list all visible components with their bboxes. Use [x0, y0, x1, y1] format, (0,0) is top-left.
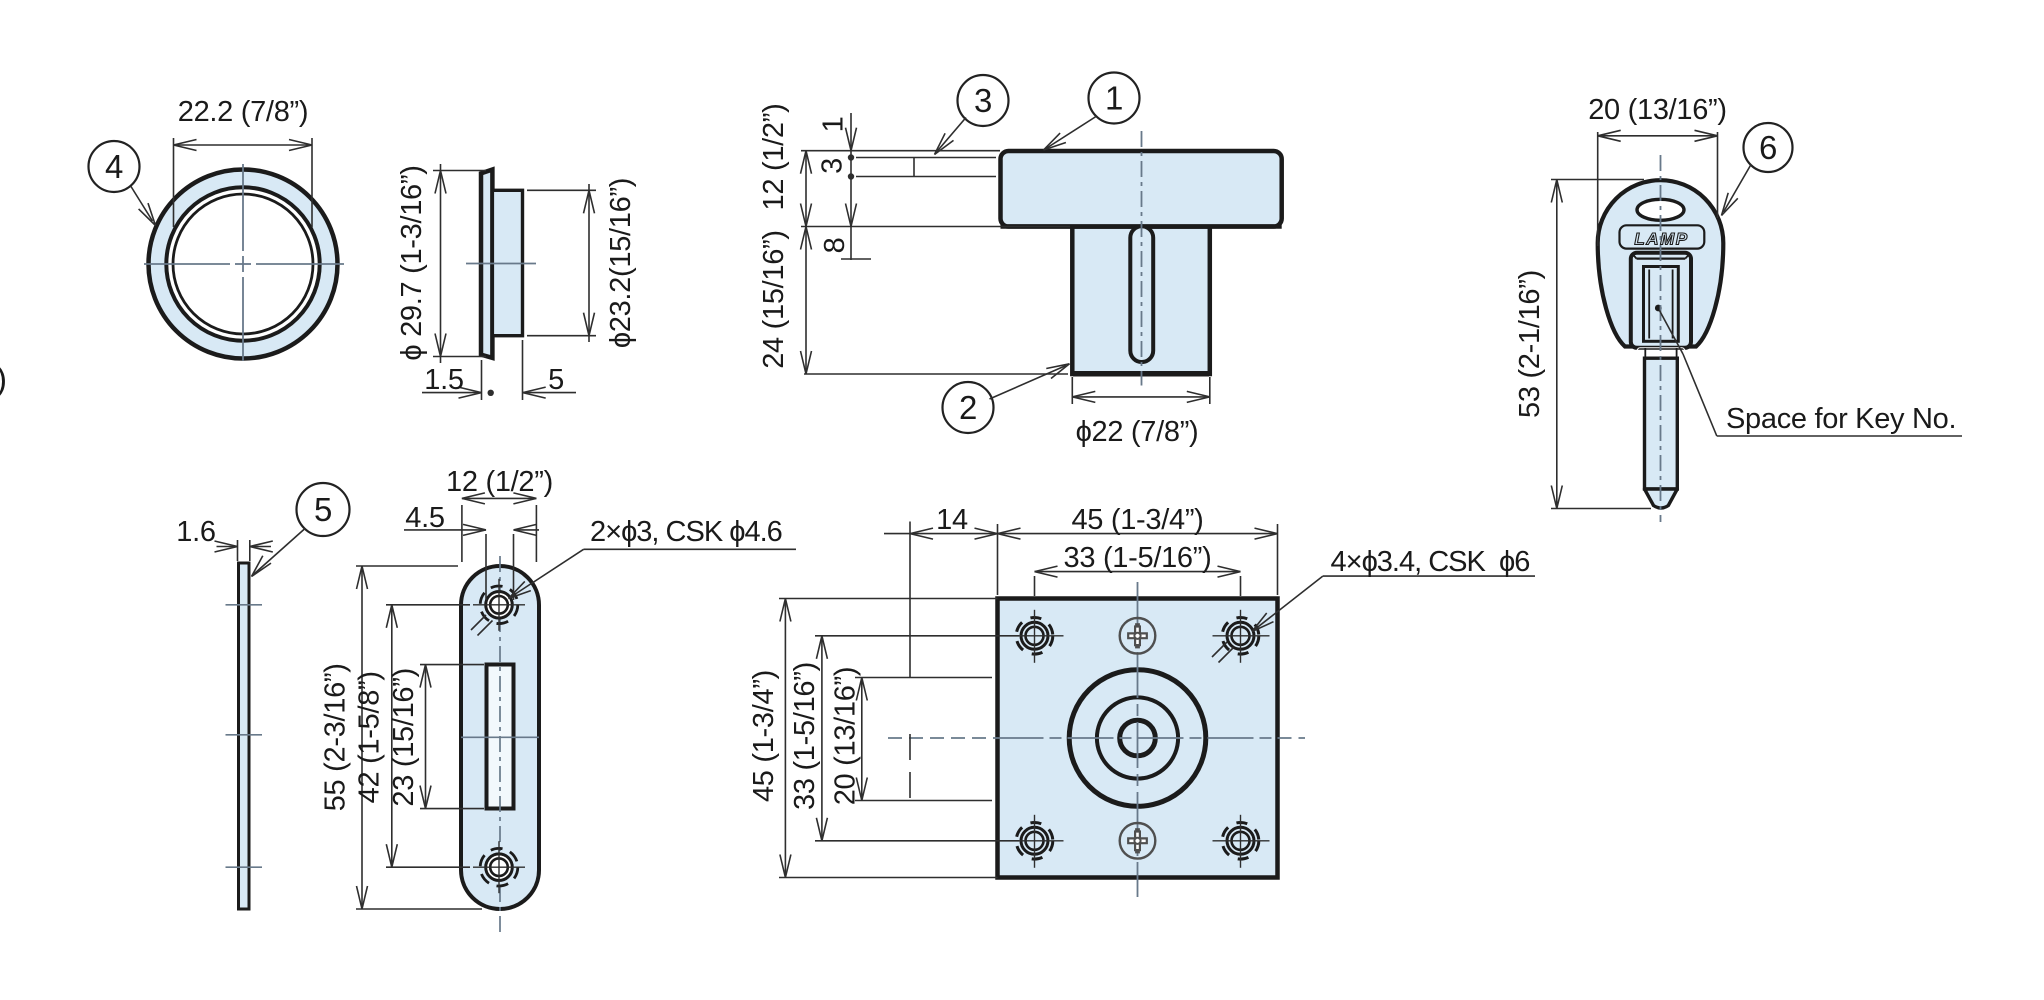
svg-text:1: 1: [1105, 80, 1123, 117]
svg-text:3: 3: [817, 158, 849, 174]
svg-text:53 (2-1/16”): 53 (2-1/16”): [1514, 270, 1546, 418]
svg-text:1: 1: [818, 117, 850, 133]
svg-text:45 (1-3/4”): 45 (1-3/4”): [748, 670, 780, 802]
capsule: [461, 566, 539, 909]
svg-text:2: 2: [959, 389, 977, 426]
svg-text:ϕ 29.7 (1-3/16”): ϕ 29.7 (1-3/16”): [396, 165, 428, 360]
svg-text:12 (1/2”): 12 (1/2”): [446, 466, 553, 498]
svg-text:5: 5: [548, 364, 564, 396]
svg-text:4: 4: [105, 148, 123, 185]
svg-text:1.6: 1.6: [176, 516, 215, 548]
svg-text:55 (2-3/16”): 55 (2-3/16”): [320, 663, 352, 811]
svg-text:LAMP: LAMP: [1634, 230, 1688, 249]
svg-text:45 (1-3/4”): 45 (1-3/4”): [1071, 504, 1203, 536]
svg-text:6: 6: [1759, 129, 1777, 166]
svg-text:22.2 (7/8”): 22.2 (7/8”): [178, 96, 309, 128]
key: [1598, 180, 1724, 346]
svg-text:12 (1/2”): 12 (1/2”): [758, 104, 790, 211]
svg-text:33 (1-5/16”): 33 (1-5/16”): [1064, 542, 1212, 574]
svg-text:42 (1-5/8”): 42 (1-5/8”): [354, 671, 386, 803]
knob: [1072, 227, 1210, 375]
svg-text:4×ϕ3.4, CSK ϕ6: 4×ϕ3.4, CSK ϕ6: [1331, 546, 1530, 578]
svg-text:33 (1-5/16”): 33 (1-5/16”): [789, 662, 821, 810]
plate: [998, 599, 1278, 878]
svg-text:23 (15/16”): 23 (15/16”): [388, 668, 420, 807]
svg-text:20 (13/16”): 20 (13/16”): [830, 667, 862, 806]
svg-text:4.5: 4.5: [405, 502, 444, 534]
svg-text:20 (13/16”): 20 (13/16”): [1588, 94, 1727, 126]
svg-text:2×ϕ3, CSK ϕ4.6: 2×ϕ3, CSK ϕ4.6: [590, 516, 782, 548]
svg-text:): ): [0, 360, 7, 397]
svg-text:Space for Key No.: Space for Key No.: [1726, 403, 1956, 435]
svg-text:1.5: 1.5: [424, 364, 463, 396]
svg-text:14: 14: [936, 504, 968, 536]
svg-text:5: 5: [314, 491, 332, 528]
ring S: [481, 170, 492, 358]
strip: [239, 563, 250, 909]
svg-text:8: 8: [819, 238, 851, 254]
svg-text:24 (15/16”): 24 (15/16”): [758, 230, 790, 369]
svg-text:3: 3: [974, 82, 992, 119]
svg-text:ϕ23.2(15/16”): ϕ23.2(15/16”): [605, 178, 637, 348]
ring F: [149, 170, 338, 359]
svg-text:ϕ22 (7/8”): ϕ22 (7/8”): [1076, 416, 1199, 448]
